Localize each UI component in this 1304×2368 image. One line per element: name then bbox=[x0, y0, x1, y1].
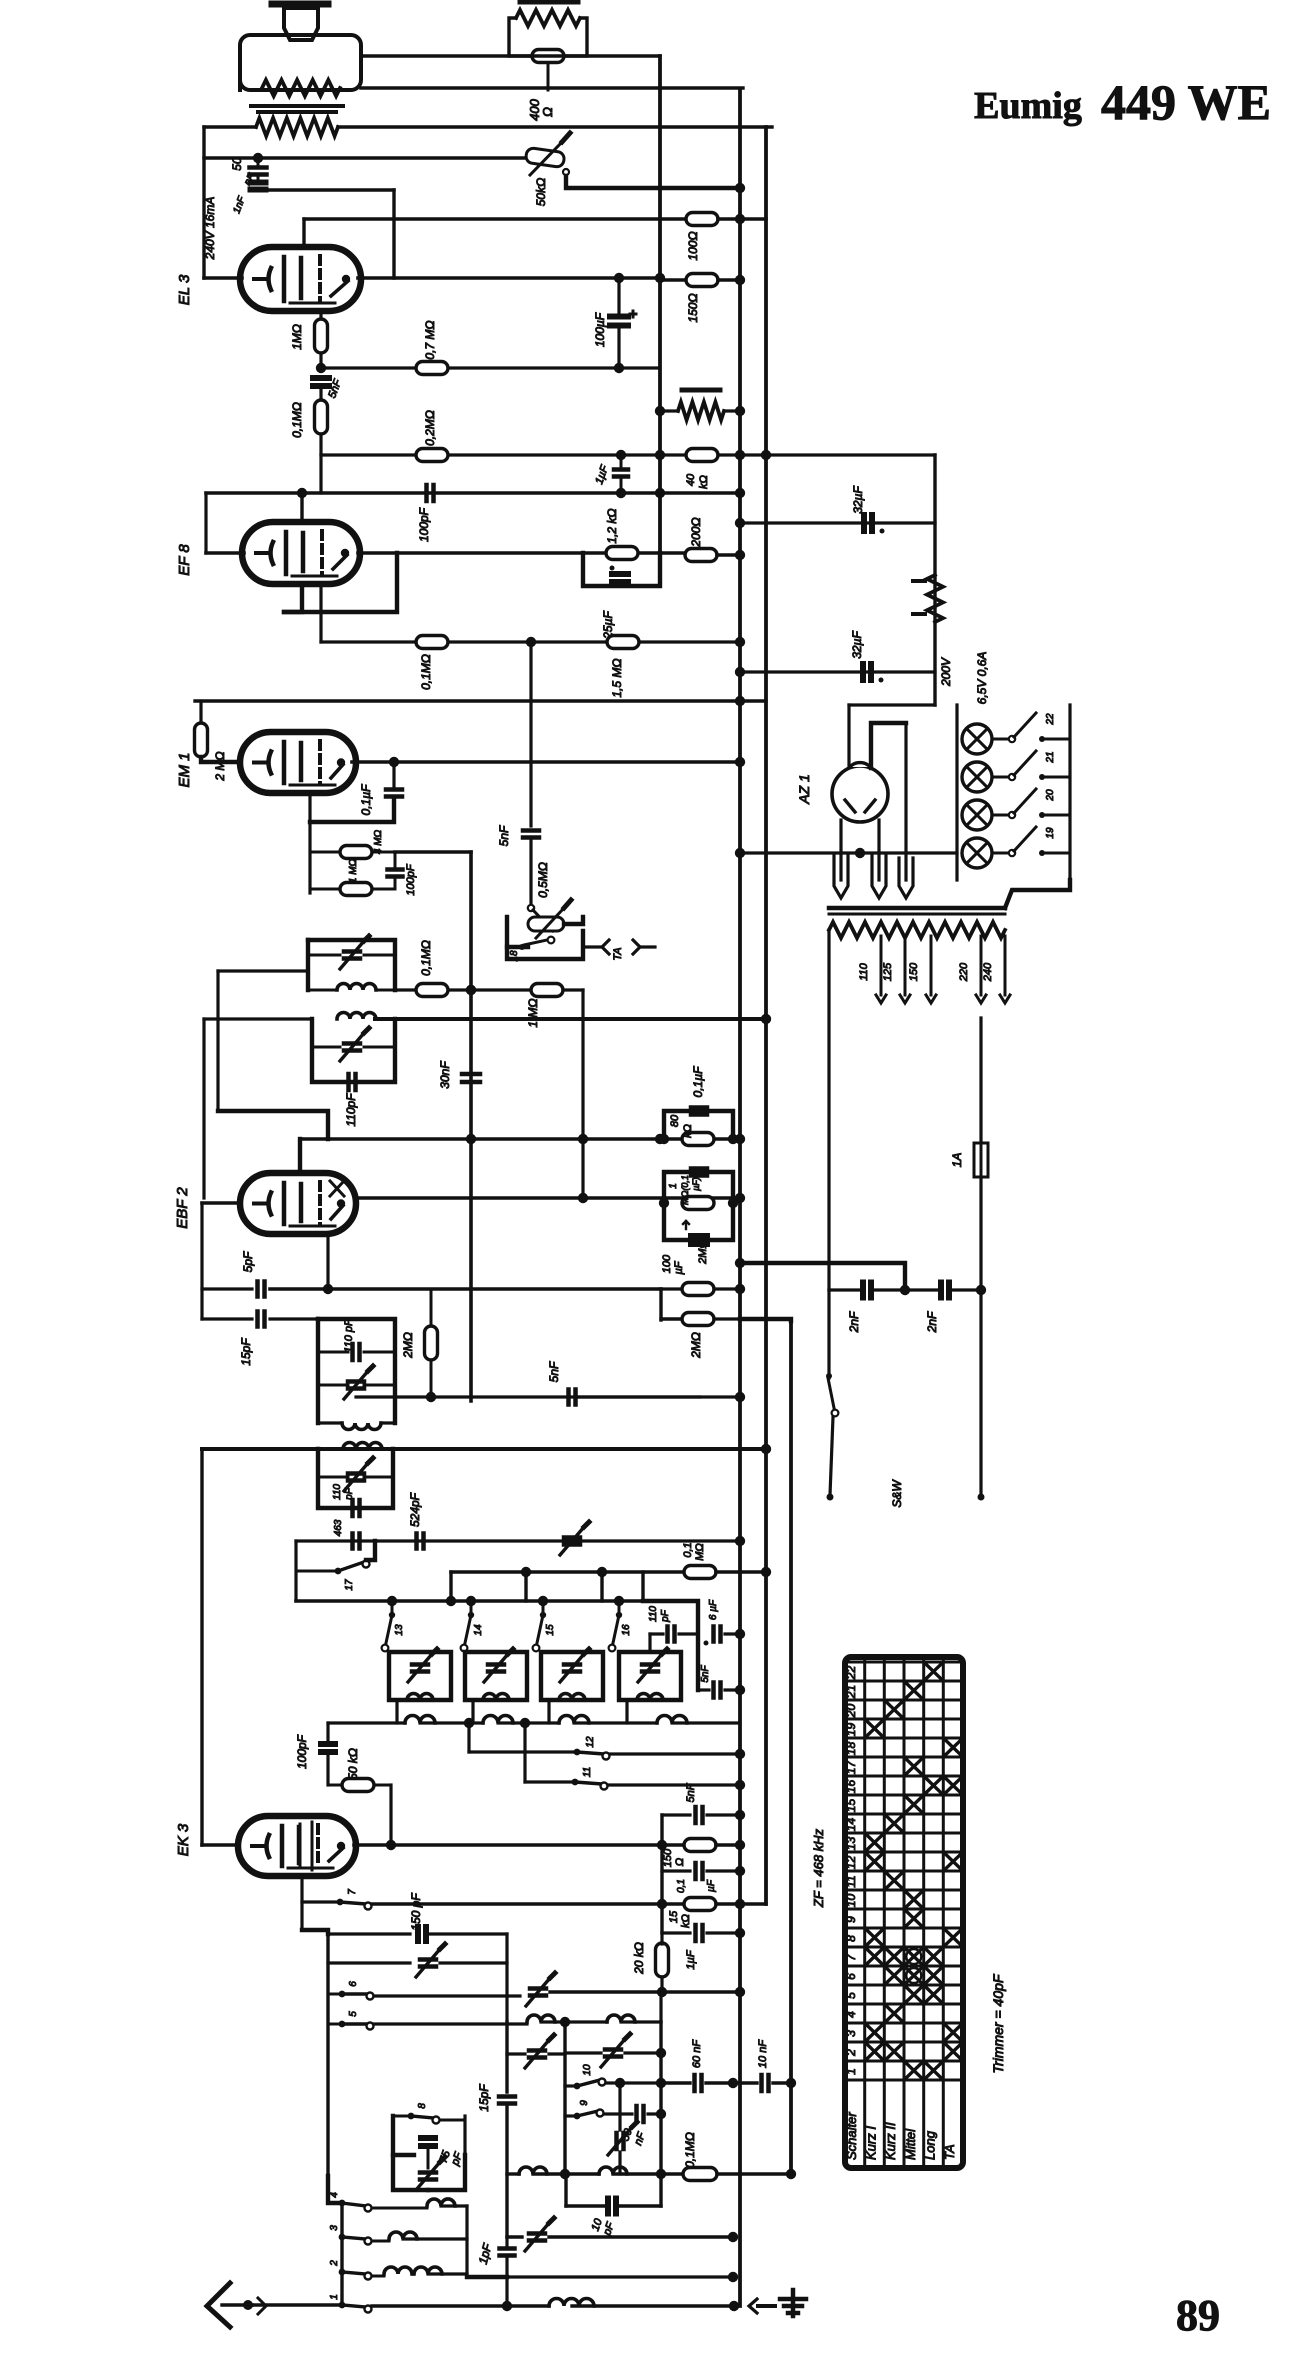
wire bbox=[505, 2022, 508, 2092]
wire bbox=[204, 1017, 312, 1020]
wire bbox=[542, 1601, 545, 1615]
wire bbox=[641, 945, 655, 948]
resistor 1Mohm psu bbox=[682, 1197, 714, 1210]
svg-text:150: 150 bbox=[662, 1848, 674, 1867]
svg-text:13: 13 bbox=[844, 1837, 858, 1851]
svg-text:1: 1 bbox=[668, 1183, 679, 1189]
wire bbox=[641, 1572, 644, 1601]
wire bbox=[789, 1320, 793, 2174]
wire bbox=[740, 521, 935, 524]
junction bbox=[655, 450, 665, 460]
wire bbox=[979, 1290, 982, 1495]
junction bbox=[339, 2302, 346, 2309]
svg-text:13: 13 bbox=[394, 1624, 405, 1636]
svg-text:100µF: 100µF bbox=[593, 312, 607, 347]
wire V x935 bbox=[933, 455, 936, 705]
junction bbox=[761, 450, 771, 460]
svg-text:1µF: 1µF bbox=[685, 1949, 697, 1969]
capacitor 110pF IF3 bbox=[353, 1344, 360, 1360]
wire bbox=[310, 888, 340, 891]
lamp Sk19 circle bbox=[962, 724, 992, 754]
wire bbox=[338, 125, 772, 128]
wire bbox=[374, 2022, 527, 2026]
capacitor bbox=[250, 168, 267, 175]
svg-text:110pF: 110pF bbox=[344, 1093, 358, 1127]
resistor 0.1Mohm IF1 bbox=[416, 984, 448, 997]
wire bbox=[270, 1287, 661, 1291]
wire bbox=[395, 988, 531, 991]
wire bbox=[318, 1421, 342, 1424]
wire bbox=[679, 1632, 698, 1635]
coil sw4 bbox=[427, 2199, 455, 2206]
wire bbox=[572, 2304, 734, 2307]
transformer core bbox=[829, 906, 1005, 911]
svg-text:2nF: 2nF bbox=[847, 1311, 861, 1333]
capacitor 0.1uF y1172 bbox=[691, 1169, 707, 1176]
table X marks bbox=[925, 1663, 943, 1680]
wire bbox=[505, 2257, 508, 2306]
capacitor bbox=[696, 1807, 703, 1823]
wire V x391 to EK3 bbox=[389, 1785, 392, 1845]
junction bbox=[729, 2301, 739, 2311]
loudspeaker LS bbox=[272, 1, 328, 8]
wire bbox=[660, 1287, 682, 1290]
wire bbox=[714, 1287, 740, 1290]
coil L1 row bbox=[405, 1716, 435, 1723]
junction bbox=[297, 488, 307, 498]
svg-text:5: 5 bbox=[844, 1992, 858, 1999]
stub osc box 13 bbox=[395, 1700, 398, 1723]
wire bbox=[364, 954, 395, 957]
junction bbox=[339, 1991, 346, 1998]
wire bbox=[650, 1632, 663, 1635]
wire bbox=[310, 798, 394, 822]
resistor zigzag bbox=[829, 922, 1005, 938]
junction bbox=[735, 183, 745, 193]
wire bbox=[300, 1137, 740, 1141]
wire bbox=[714, 1317, 740, 1320]
capacitor bbox=[714, 1627, 721, 1642]
junction bbox=[341, 549, 349, 557]
svg-text:3: 3 bbox=[329, 2225, 340, 2231]
junction bbox=[656, 2078, 666, 2088]
svg-text:110: 110 bbox=[648, 1606, 659, 1622]
junction bbox=[616, 488, 626, 498]
junction bbox=[735, 1685, 745, 1695]
wire bbox=[718, 278, 740, 282]
choke bar bbox=[682, 388, 720, 393]
svg-text:524pF: 524pF bbox=[408, 1492, 422, 1527]
wire bbox=[300, 493, 303, 524]
svg-text:21: 21 bbox=[1045, 751, 1056, 763]
wire bbox=[374, 2022, 527, 2025]
junction bbox=[335, 1568, 342, 1575]
wire bbox=[533, 2172, 599, 2175]
wire bbox=[992, 852, 1008, 855]
wire bbox=[470, 1601, 473, 1615]
svg-text:32µF: 32µF bbox=[850, 631, 864, 659]
wire bbox=[356, 1196, 740, 1200]
svg-text:20 kΩ: 20 kΩ bbox=[632, 1942, 646, 1975]
wire bbox=[541, 2020, 607, 2023]
svg-text:2 MΩ: 2 MΩ bbox=[213, 751, 227, 781]
coil bbox=[637, 1694, 663, 1700]
wire bbox=[979, 1018, 982, 1143]
svg-text:20: 20 bbox=[1045, 789, 1056, 802]
wire bbox=[358, 551, 686, 555]
wire bbox=[507, 917, 528, 947]
wire bbox=[583, 553, 660, 586]
resistor 400ohm zigzag bbox=[516, 10, 580, 26]
capacitor 463pF bbox=[353, 1534, 360, 1549]
capacitor bbox=[864, 515, 872, 531]
wire bbox=[617, 278, 620, 312]
svg-text:1MΩ: 1MΩ bbox=[290, 324, 304, 350]
wire bbox=[904, 723, 907, 880]
svg-text:17: 17 bbox=[844, 1760, 858, 1775]
svg-text:0,1MΩ: 0,1MΩ bbox=[419, 940, 433, 976]
svg-text:150: 150 bbox=[908, 962, 920, 981]
resistor 15kohm bbox=[684, 1898, 716, 1911]
wire bbox=[364, 1476, 393, 1479]
svg-text:MΩ: MΩ bbox=[694, 1543, 706, 1561]
wire bbox=[740, 670, 935, 673]
resistor 80kohm bbox=[682, 1133, 714, 1146]
svg-text:Schalter: Schalter bbox=[844, 2112, 859, 2160]
wire bbox=[328, 1721, 405, 1724]
junction bbox=[560, 2017, 570, 2027]
capacitor bbox=[418, 1927, 426, 1941]
wire bbox=[664, 1111, 733, 1139]
svg-text:0,1MΩ: 0,1MΩ bbox=[683, 2132, 697, 2168]
svg-text:Trimmer = 40pF: Trimmer = 40pF bbox=[990, 1973, 1006, 2073]
wire bbox=[717, 2172, 791, 2175]
junction bbox=[728, 2078, 738, 2088]
svg-text:0,5MΩ: 0,5MΩ bbox=[536, 862, 550, 898]
capacitor bbox=[529, 2051, 545, 2058]
svg-text:Mittel: Mittel bbox=[903, 2128, 918, 2160]
svg-text:463: 463 bbox=[333, 1519, 344, 1536]
wire bbox=[718, 217, 766, 221]
wire bbox=[738, 89, 742, 2306]
svg-text:32µF: 32µF bbox=[851, 486, 865, 514]
junction bbox=[761, 1567, 771, 1577]
wire bbox=[707, 1869, 740, 1872]
svg-text:15: 15 bbox=[668, 1910, 680, 1923]
EBF2 diode plates bbox=[330, 1181, 344, 1196]
capacitor bbox=[412, 1665, 428, 1672]
wire bbox=[440, 1961, 507, 1964]
capacitor bbox=[696, 1925, 703, 1941]
junction bbox=[735, 1284, 745, 1294]
wire bbox=[428, 2272, 467, 2275]
capacitor 110pF osc bbox=[353, 1500, 360, 1516]
junction bbox=[659, 1198, 669, 1208]
coil bbox=[407, 1694, 433, 1700]
capacitor bbox=[637, 2106, 644, 2122]
svg-text:0,1µF: 0,1µF bbox=[691, 1066, 705, 1098]
svg-text:30nF: 30nF bbox=[438, 1061, 452, 1089]
junction bbox=[1039, 812, 1045, 818]
svg-text:MΩ(0,1: MΩ(0,1 bbox=[680, 1175, 690, 1205]
junction bbox=[614, 363, 624, 373]
wire bbox=[706, 2081, 757, 2084]
table circled marks bbox=[906, 1949, 921, 1964]
wire bbox=[604, 2112, 632, 2115]
wire bbox=[549, 2052, 565, 2055]
wire bbox=[565, 2051, 601, 2054]
capacitor 0.1uF y1111 bbox=[691, 1108, 707, 1115]
svg-text:4 MΩ: 4 MΩ bbox=[373, 829, 384, 854]
wire bbox=[564, 2174, 567, 2206]
wire bbox=[648, 1634, 651, 1652]
junction bbox=[735, 696, 745, 706]
wire bbox=[992, 738, 1008, 741]
wire bbox=[202, 1287, 252, 1290]
stub osc box 15 bbox=[547, 1700, 550, 1723]
wire bbox=[724, 409, 740, 412]
svg-text:18: 18 bbox=[509, 950, 520, 962]
wire bbox=[523, 1723, 526, 1782]
capacitor bbox=[529, 2234, 545, 2241]
wire bbox=[204, 276, 242, 280]
wire bbox=[201, 757, 240, 762]
wire bbox=[372, 2275, 384, 2278]
wire bbox=[505, 2237, 508, 2245]
junction bbox=[656, 2169, 666, 2179]
capacitor bbox=[344, 952, 360, 959]
svg-text:200V: 200V bbox=[939, 657, 953, 687]
wire bbox=[930, 936, 933, 995]
wire bbox=[549, 2235, 733, 2238]
junction bbox=[728, 2232, 738, 2242]
capacitor bbox=[258, 1312, 265, 1327]
svg-text:TA: TA bbox=[612, 947, 624, 960]
junction bbox=[735, 518, 745, 528]
wire bbox=[566, 176, 740, 188]
svg-text:6: 6 bbox=[844, 1973, 858, 1980]
wire bbox=[354, 1843, 684, 1847]
junction bbox=[578, 1193, 588, 1203]
resistor bbox=[686, 449, 718, 462]
svg-text:100pF: 100pF bbox=[295, 1734, 309, 1769]
svg-text:5nF: 5nF bbox=[547, 1361, 561, 1382]
wire bbox=[374, 1784, 391, 1787]
output transformer T2 frame bbox=[240, 35, 361, 90]
resistor bbox=[342, 1779, 374, 1792]
junction bbox=[597, 1567, 607, 1577]
svg-text:Ω: Ω bbox=[674, 1858, 686, 1866]
svg-text:7: 7 bbox=[347, 1889, 358, 1895]
svg-text:EK 3: EK 3 bbox=[175, 1823, 192, 1856]
wire bbox=[600, 1572, 603, 1601]
wire bbox=[321, 640, 740, 643]
coil IF2 bbox=[337, 1013, 376, 1019]
junction bbox=[656, 2109, 666, 2119]
svg-text:60 nF: 60 nF bbox=[691, 2039, 703, 2068]
svg-text:110: 110 bbox=[858, 962, 870, 980]
wire bbox=[302, 219, 305, 248]
svg-text:µF: µF bbox=[673, 1260, 685, 1274]
wire bbox=[312, 1046, 340, 1049]
wire bbox=[308, 792, 311, 893]
coil mid2 bbox=[599, 2167, 627, 2174]
stub osc box 14 bbox=[471, 1700, 474, 1723]
junction bbox=[735, 1392, 745, 1402]
wire bbox=[625, 2051, 661, 2054]
junction bbox=[655, 406, 665, 416]
junction bbox=[657, 1987, 667, 1997]
svg-text:8: 8 bbox=[844, 1935, 858, 1942]
resistor zigzag bbox=[678, 402, 724, 420]
wire bbox=[340, 2203, 343, 2305]
svg-text:89: 89 bbox=[1176, 2291, 1220, 2340]
junction bbox=[826, 1373, 832, 1379]
wire bbox=[621, 2020, 661, 2023]
svg-text:12: 12 bbox=[844, 1856, 858, 1870]
wire bbox=[318, 1384, 348, 1387]
wire bbox=[308, 954, 340, 957]
wire bbox=[871, 723, 906, 768]
wire bbox=[364, 1384, 395, 1387]
wire bbox=[830, 1417, 833, 1495]
wire bbox=[312, 1019, 395, 1082]
capacitor 110pF IF2 bbox=[349, 1074, 356, 1090]
wire bbox=[664, 1172, 733, 1203]
svg-text:Eumig: Eumig bbox=[974, 85, 1082, 127]
capacitor bbox=[608, 2199, 616, 2214]
ground symbol bbox=[791, 2290, 796, 2316]
wire bbox=[839, 820, 842, 880]
wire bbox=[829, 1288, 860, 1291]
junction bbox=[610, 566, 615, 571]
wire bbox=[372, 2207, 427, 2210]
wire bbox=[270, 1317, 318, 1320]
junction bbox=[655, 1134, 665, 1144]
svg-text:11: 11 bbox=[582, 1767, 593, 1777]
resistor bbox=[686, 274, 718, 287]
junction bbox=[502, 2301, 512, 2311]
junction bbox=[735, 1928, 745, 1938]
junction bbox=[521, 1567, 531, 1577]
wire bbox=[716, 1570, 766, 1574]
junction bbox=[735, 1629, 745, 1639]
svg-text:6: 6 bbox=[348, 1981, 359, 1987]
coil sw3 bbox=[389, 2232, 417, 2239]
capacitor bbox=[388, 870, 403, 877]
wire bbox=[374, 1994, 520, 1997]
junction bbox=[466, 985, 476, 995]
wire V x321 down to y493 bbox=[319, 455, 322, 493]
junction bbox=[728, 1198, 738, 1208]
wire bbox=[376, 989, 395, 992]
capacitor bbox=[530, 1989, 546, 1996]
junction bbox=[408, 2113, 415, 2120]
wire 400ohm tap down bbox=[547, 63, 550, 90]
wire bbox=[394, 878, 397, 889]
wire bbox=[318, 1449, 393, 1508]
capacitor bbox=[614, 470, 628, 477]
capacitor bbox=[462, 1074, 480, 1082]
wire bbox=[284, 584, 302, 612]
svg-text:0,2MΩ: 0,2MΩ bbox=[423, 410, 437, 446]
junction bbox=[657, 1840, 667, 1850]
wire bbox=[583, 945, 601, 948]
junction bbox=[1039, 850, 1045, 856]
junction bbox=[735, 848, 745, 858]
wire bbox=[610, 1753, 740, 1756]
resistor 400ohm loop bbox=[509, 18, 587, 56]
wire bbox=[639, 2083, 641, 2104]
wire bbox=[847, 705, 850, 766]
junction bbox=[735, 1899, 745, 1909]
capacitor bbox=[420, 2173, 436, 2180]
svg-text:0,1: 0,1 bbox=[682, 1542, 694, 1557]
wire bbox=[199, 701, 202, 724]
coil IF3 bbox=[342, 1423, 381, 1430]
junction bbox=[560, 2169, 570, 2179]
wire bbox=[648, 2112, 661, 2115]
wire bbox=[660, 453, 686, 456]
wire bbox=[308, 940, 395, 990]
junction bbox=[880, 529, 885, 534]
wire bbox=[606, 2081, 661, 2084]
svg-text:100: 100 bbox=[661, 1254, 673, 1273]
wire bbox=[364, 1046, 395, 1049]
wire bbox=[827, 1290, 830, 1378]
wire V x471 bbox=[469, 852, 473, 1401]
capacitor bbox=[488, 1665, 504, 1672]
resistor bbox=[340, 846, 372, 859]
junction bbox=[387, 1596, 397, 1606]
wire bbox=[358, 276, 660, 280]
wire bbox=[525, 1780, 573, 1783]
wire bbox=[660, 1815, 663, 1933]
svg-text:449 WE: 449 WE bbox=[1101, 74, 1271, 130]
wire bbox=[766, 453, 935, 456]
wire bbox=[659, 2022, 662, 2206]
junction bbox=[337, 758, 345, 766]
wire V x583 bbox=[581, 990, 584, 1200]
junction bbox=[540, 1612, 546, 1618]
wire bbox=[328, 2023, 340, 2026]
wire bbox=[661, 2081, 690, 2084]
wire bbox=[698, 1688, 709, 1691]
wire V x202 left EK3 bbox=[200, 1449, 203, 1845]
svg-text:5nF: 5nF bbox=[700, 1664, 711, 1682]
junction bbox=[519, 944, 525, 950]
wire bbox=[610, 1752, 740, 1755]
wire bbox=[392, 190, 395, 278]
wire bbox=[658, 56, 662, 586]
svg-text:50kΩ: 50kΩ bbox=[534, 178, 548, 206]
junction bbox=[574, 2113, 581, 2120]
svg-text:pF: pF bbox=[344, 1487, 355, 1501]
wire H y88 T2 bottom to bus B bbox=[361, 86, 743, 89]
wire bbox=[321, 453, 660, 456]
wire bbox=[529, 642, 532, 826]
wire bbox=[740, 1319, 791, 1320]
svg-text:14: 14 bbox=[473, 1624, 484, 1636]
junction bbox=[735, 1866, 745, 1876]
junction bbox=[735, 550, 745, 560]
junction bbox=[337, 1842, 345, 1850]
wire bbox=[716, 1902, 766, 1905]
wire bbox=[372, 2304, 549, 2307]
wire bbox=[979, 1177, 982, 1290]
wire bbox=[498, 1721, 559, 1724]
junction bbox=[614, 273, 624, 283]
